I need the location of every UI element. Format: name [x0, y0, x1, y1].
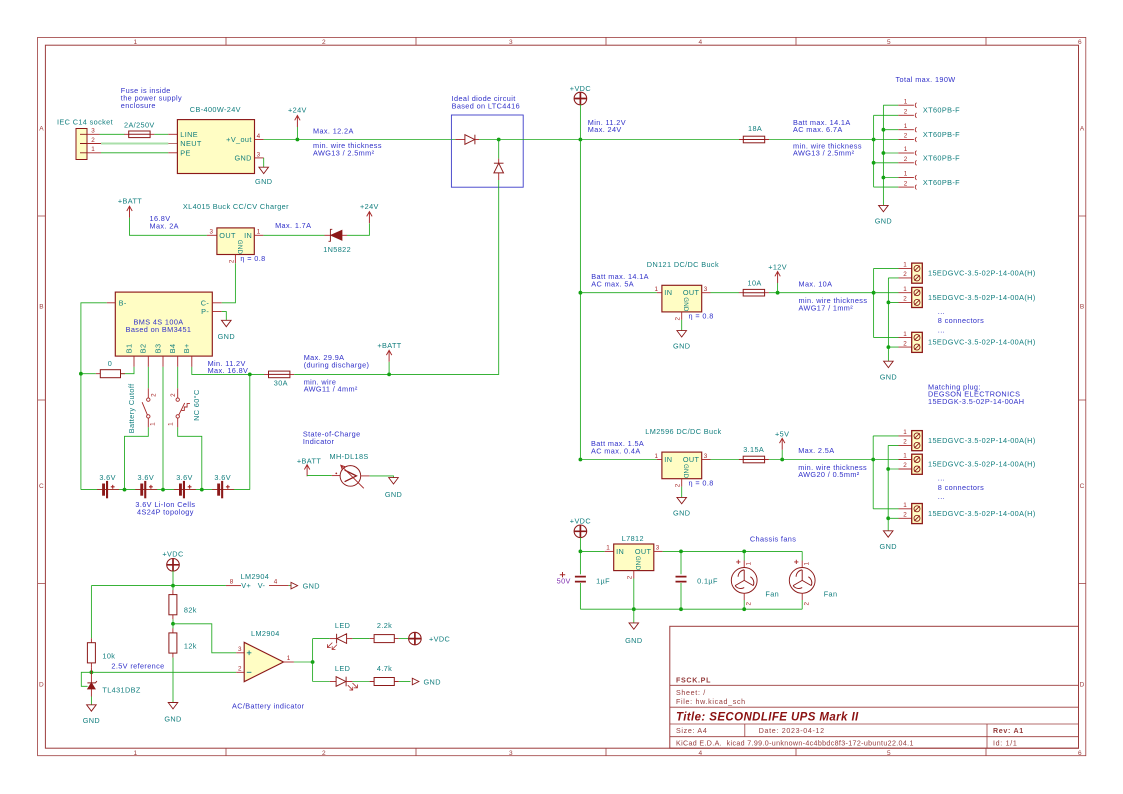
svg-text:8 connectors: 8 connectors: [938, 316, 984, 325]
wire B- to left rail: [81, 303, 107, 490]
svg-text:2A/250V: 2A/250V: [124, 120, 155, 129]
resistor R3 10k: [87, 638, 95, 667]
svg-text:2: 2: [904, 109, 908, 116]
svg-text:+V_out: +V_out: [226, 135, 252, 144]
svg-text:4: 4: [274, 579, 278, 586]
junction +BATT: [387, 373, 391, 377]
svg-text:2: 2: [91, 137, 95, 144]
svg-text:2: 2: [904, 133, 908, 140]
svg-text:1: 1: [655, 453, 659, 460]
op-amp U1B power pins LM2904: [226, 572, 291, 590]
svg-text:1: 1: [257, 229, 261, 236]
svg-text:Indicator: Indicator: [303, 437, 335, 446]
svg-text:1: 1: [903, 429, 907, 436]
svg-text:Size: A4: Size: A4: [676, 727, 707, 735]
connector J7 15EDGVC: [899, 286, 1036, 308]
svg-text:LINE: LINE: [180, 130, 198, 139]
svg-text:GND: GND: [682, 464, 689, 479]
svg-text:1: 1: [903, 502, 907, 509]
power flag +12V: [777, 283, 779, 293]
svg-text:XT60PB-F: XT60PB-F: [923, 153, 960, 162]
svg-text:2: 2: [903, 439, 907, 446]
svg-text:OUT: OUT: [219, 231, 236, 240]
svg-text:18A: 18A: [748, 124, 762, 133]
svg-text:LM2596 DC/DC Buck: LM2596 DC/DC Buck: [645, 427, 721, 436]
gnd TL431: [90, 697, 92, 705]
svg-text:10A: 10A: [748, 278, 762, 287]
svg-text:...: ...: [938, 474, 945, 483]
battery bus wire: [81, 489, 250, 491]
svg-text:OUT: OUT: [635, 547, 652, 556]
svg-text:3: 3: [210, 229, 214, 236]
svg-text:MH-DL18S: MH-DL18S: [330, 452, 369, 461]
wire shunt diode down to battery bus: [389, 180, 499, 374]
svg-text:AC/Battery indicator: AC/Battery indicator: [232, 702, 305, 711]
junction rail c3: [872, 161, 876, 165]
switch SW2 NC 60degC thermal: [168, 367, 201, 427]
wire divider to pin3: [173, 624, 236, 653]
svg-text:1: 1: [134, 750, 138, 757]
svg-text:GND: GND: [236, 240, 243, 255]
bank2 pin wires: [873, 436, 898, 518]
svg-text:GND: GND: [673, 508, 690, 517]
svg-text:FSCK.PL: FSCK.PL: [676, 677, 711, 685]
svg-text:Max. 10A: Max. 10A: [799, 279, 833, 288]
svg-text:1: 1: [606, 545, 610, 552]
svg-text:4.7k: 4.7k: [377, 664, 392, 673]
svg-text:GND: GND: [303, 582, 320, 591]
wire to LED2: [313, 681, 330, 683]
svg-text:1: 1: [903, 331, 907, 338]
svg-text:8 connectors: 8 connectors: [938, 483, 984, 492]
wire +V_out to ideal diode box: [264, 139, 456, 141]
wire fuse to +BATT junction: [294, 373, 389, 375]
gnd bank1: [884, 361, 894, 367]
svg-text:IEC C14 socket: IEC C14 socket: [57, 118, 113, 127]
regulator U6 L7812: [605, 534, 663, 579]
svg-text:Max. 24V: Max. 24V: [588, 125, 622, 134]
+VDC vertical rail: [579, 140, 581, 460]
wire 12k to gnd: [172, 658, 174, 703]
junction 2.5V ref: [90, 670, 94, 674]
connector J9 15EDGVC: [899, 429, 1036, 451]
svg-text:Chassis fans: Chassis fans: [750, 534, 796, 543]
connector J11 15EDGVC: [899, 502, 1036, 524]
svg-text:IN: IN: [664, 455, 672, 464]
connector J8 15EDGVC: [899, 331, 1036, 353]
svg-text:...: ...: [938, 325, 945, 334]
svg-text:+VDC: +VDC: [570, 84, 591, 93]
svg-text:5: 5: [887, 750, 891, 757]
svg-text:2: 2: [627, 575, 634, 579]
gnd bank2: [883, 531, 893, 537]
svg-text:AC max. 5A: AC max. 5A: [591, 280, 634, 289]
svg-text:IN: IN: [616, 547, 624, 556]
svg-text:GND: GND: [255, 177, 272, 186]
wire OUT bus: [663, 550, 803, 552]
wire OUT to fuse 3.15A: [711, 459, 740, 461]
svg-text:2: 2: [675, 317, 682, 321]
wire B+ to bus: [192, 367, 265, 375]
junction +12V flag: [776, 291, 780, 295]
svg-text:1N5822: 1N5822: [323, 245, 351, 254]
svg-text:15EDGK-3.5-02P-14-00AH: 15EDGK-3.5-02P-14-00AH: [928, 397, 1024, 406]
svg-text:2: 2: [903, 271, 907, 278]
svg-text:AC max. 0.4A: AC max. 0.4A: [591, 446, 641, 455]
svg-text:Fan: Fan: [765, 590, 779, 599]
gnd flag led2: [412, 678, 419, 685]
resistor R0 0 ohm: [120, 367, 134, 374]
svg-text:η = 0.8: η = 0.8: [689, 478, 714, 487]
gnd LM2596: [681, 487, 683, 498]
svg-text:3.6V: 3.6V: [176, 473, 193, 482]
svg-text:2: 2: [903, 462, 907, 469]
wire out to LEDs: [294, 661, 313, 663]
svg-text:1: 1: [904, 171, 908, 178]
svg-text:GND: GND: [234, 153, 251, 162]
svg-text:(during discharge): (during discharge): [304, 360, 370, 369]
junction B+ bus / right battery rail: [248, 373, 252, 377]
svg-text:C-: C-: [201, 298, 210, 307]
diode D1 1N5822: [325, 229, 348, 241]
svg-text:3: 3: [91, 128, 95, 135]
gnd P-: [222, 312, 227, 321]
svg-text:Title: SECONDLIFE UPS Mark II: Title: SECONDLIFE UPS Mark II: [676, 711, 859, 723]
svg-text:V-: V-: [258, 581, 266, 590]
svg-text:GND: GND: [83, 716, 100, 725]
svg-text:0: 0: [108, 359, 112, 368]
regulator U5 LM2596: [655, 452, 711, 487]
svg-text:+BATT: +BATT: [297, 456, 321, 465]
junction 0.1uF: [679, 550, 683, 554]
svg-text:GND: GND: [625, 636, 642, 645]
svg-text:1: 1: [904, 146, 908, 153]
wire ref loop: [81, 672, 91, 686]
svg-text:1: 1: [904, 123, 908, 130]
svg-text:15EDGVC-3.5-02P-14-00A(H): 15EDGVC-3.5-02P-14-00A(H): [928, 293, 1036, 302]
svg-text:XT60PB-F: XT60PB-F: [923, 106, 960, 115]
svg-text:IN: IN: [664, 288, 672, 297]
svg-text:η = 0.8: η = 0.8: [689, 312, 714, 321]
svg-text:2: 2: [675, 483, 682, 487]
svg-text:OUT: OUT: [683, 455, 700, 464]
junction left rail / R0: [79, 372, 83, 376]
junction +VDC rail end / 5V row: [579, 458, 583, 462]
svg-text:...: ...: [938, 492, 945, 501]
12V bank gnd rail: [887, 278, 889, 361]
svg-text:B4: B4: [168, 344, 177, 354]
svg-text:GND: GND: [218, 332, 235, 341]
svg-text:+VDC: +VDC: [162, 550, 183, 559]
wire XL4015 pin2 to C-: [222, 263, 236, 303]
wire R5 to gnd flag: [399, 681, 411, 683]
junction +24V: [296, 138, 300, 142]
svg-text:2: 2: [322, 750, 326, 757]
svg-text:GND: GND: [673, 342, 690, 351]
svg-text:OUT: OUT: [683, 288, 700, 297]
svg-text:Rev: A1: Rev: A1: [993, 727, 1024, 735]
resistor R1 82k: [172, 586, 174, 624]
svg-text:...: ...: [938, 307, 945, 316]
connector J6 15EDGVC: [899, 262, 1036, 284]
svg-text:30A: 30A: [274, 379, 288, 388]
svg-text:KiCad E.D.A. kicad 7.99.0-unk: KiCad E.D.A. kicad 7.99.0-unknown-4c4bbd…: [676, 739, 914, 747]
12V bank +rail: [873, 268, 875, 337]
led D6 (to GND): [330, 677, 358, 690]
svg-text:8: 8: [230, 579, 234, 586]
power supply PS1 CB-400W-24V: [177, 105, 263, 173]
svg-text:A: A: [39, 126, 44, 133]
connector J10 15EDGVC: [899, 453, 1036, 475]
svg-text:2: 2: [170, 393, 177, 397]
svg-text:2.2k: 2.2k: [377, 621, 392, 630]
svg-text:15EDGVC-3.5-02P-14-00A(H): 15EDGVC-3.5-02P-14-00A(H): [928, 338, 1036, 347]
wire B3 down: [162, 367, 164, 490]
svg-text:4: 4: [699, 750, 703, 757]
svg-text:P-: P-: [201, 307, 209, 316]
svg-text:3: 3: [509, 750, 513, 757]
svg-text:B2: B2: [139, 344, 148, 354]
wire to LED1: [313, 638, 330, 640]
svg-text:+BATT: +BATT: [118, 197, 142, 206]
wire fuse to bank: [769, 292, 874, 294]
svg-text:5: 5: [887, 39, 891, 46]
wire L to fuse: [100, 133, 125, 135]
svg-text:IN: IN: [244, 231, 252, 240]
svg-text:Max. 2.5A: Max. 2.5A: [798, 446, 834, 455]
svg-text:GND: GND: [634, 556, 641, 571]
svg-text:XL4015 Buck CC/CV Charger: XL4015 Buck CC/CV Charger: [183, 202, 289, 211]
svg-text:B-: B-: [119, 298, 127, 307]
connector J4 XT60PB-F: [898, 146, 960, 165]
op-amp U1A LM2904: [236, 629, 294, 682]
wire to L7812: [580, 550, 604, 552]
wire IN to diode: [263, 234, 324, 236]
wire V+ rail: [91, 586, 226, 639]
svg-text:2.5V reference: 2.5V reference: [111, 662, 164, 671]
svg-text:4S24P topology: 4S24P topology: [137, 508, 194, 517]
svg-text:15EDGVC-3.5-02P-14-00A(H): 15EDGVC-3.5-02P-14-00A(H): [928, 436, 1036, 445]
resistor R2 12k: [172, 624, 174, 629]
wire diode to junction: [479, 139, 499, 141]
svg-text:+BATT: +BATT: [377, 341, 401, 350]
BMS U3: [107, 292, 222, 367]
svg-text:AWG20 / 0.5mm²: AWG20 / 0.5mm²: [798, 470, 860, 479]
connector J1 IEC C14 socket: [57, 118, 113, 160]
svg-text:LM2904: LM2904: [241, 572, 270, 581]
svg-text:Sheet: /: Sheet: /: [676, 689, 706, 697]
svg-text:4: 4: [257, 133, 261, 140]
svg-text:10k: 10k: [102, 652, 115, 661]
svg-text:2: 2: [804, 602, 811, 606]
svg-text:3: 3: [509, 39, 513, 46]
wire PE: [101, 152, 168, 154]
svg-text:4: 4: [699, 39, 703, 46]
svg-text:15EDGVC-3.5-02P-14-00A(H): 15EDGVC-3.5-02P-14-00A(H): [928, 509, 1036, 518]
svg-text:PE: PE: [180, 148, 191, 157]
bottom rail: [580, 608, 802, 610]
svg-text:B+: B+: [182, 343, 191, 353]
svg-text:0.1µF: 0.1µF: [697, 576, 718, 585]
svg-text:B: B: [39, 304, 44, 311]
power flag +BATT (battery bus): [388, 362, 390, 375]
svg-text:1: 1: [903, 453, 907, 460]
svg-text:3.15A: 3.15A: [743, 445, 764, 454]
svg-text:GND: GND: [385, 490, 402, 499]
svg-text:1: 1: [655, 286, 659, 293]
svg-text:GND: GND: [880, 372, 897, 381]
svg-text:+5V: +5V: [775, 429, 789, 438]
svg-text:B: B: [1080, 304, 1085, 311]
switch SW1 battery cutoff: [127, 367, 157, 433]
wire node to +VDC junction: [499, 139, 874, 141]
XT60 pin wires: [874, 105, 899, 187]
svg-text:D: D: [1080, 682, 1085, 689]
svg-text:TL431DBZ: TL431DBZ: [102, 686, 140, 695]
junction pin2 rail: [632, 607, 636, 611]
svg-text:B3: B3: [153, 344, 162, 354]
capacitor C1 1uF: [579, 551, 581, 574]
gnd below PSU: [263, 158, 265, 167]
wire fuse to bank2: [769, 459, 873, 461]
wire diode to +24V: [347, 223, 369, 235]
svg-text:3: 3: [704, 453, 708, 460]
svg-text:82k: 82k: [184, 605, 197, 614]
wire rail to DN121: [580, 292, 657, 294]
capacitor C2 0.1uF: [680, 551, 682, 574]
power flag +24V (charger in): [367, 212, 372, 224]
svg-text:+12V: +12V: [768, 262, 787, 271]
svg-text:3.6V: 3.6V: [138, 473, 155, 482]
wire sw2 to junction3: [178, 427, 202, 489]
svg-text:3: 3: [238, 646, 242, 653]
gnd L7812: [633, 609, 635, 623]
svg-text:AWG13 / 2.5mm²: AWG13 / 2.5mm²: [313, 148, 375, 157]
svg-text:η = 0.8: η = 0.8: [240, 254, 265, 263]
svg-text:NC 60°C: NC 60°C: [192, 389, 201, 421]
svg-text:Fan: Fan: [824, 590, 838, 599]
svg-text:1: 1: [287, 655, 291, 662]
svg-text:2: 2: [228, 259, 235, 263]
diode D3 (shunt, vertical): [494, 140, 504, 181]
wire R4 to +VDC: [399, 638, 409, 640]
svg-text:GND: GND: [682, 297, 689, 312]
svg-text:LED: LED: [335, 621, 350, 630]
svg-text:2: 2: [746, 602, 753, 606]
svg-text:2: 2: [904, 180, 908, 187]
XT60 gnd rail: [882, 105, 884, 205]
svg-text:3: 3: [257, 151, 261, 158]
svg-text:NEUT: NEUT: [180, 139, 202, 148]
svg-text:LM2904: LM2904: [251, 629, 280, 638]
wire ref to pin2: [91, 671, 236, 673]
svg-text:Battery Cutoff: Battery Cutoff: [127, 383, 136, 433]
svg-text:12k: 12k: [184, 641, 197, 650]
svg-text:GND: GND: [424, 678, 441, 687]
svg-text:Max. 16.8V: Max. 16.8V: [208, 366, 249, 375]
svg-text:Max. 12.2A: Max. 12.2A: [313, 126, 354, 135]
svg-text:+VDC: +VDC: [570, 517, 591, 526]
wire rail to LM2596: [580, 459, 657, 461]
wire meter to gnd: [370, 476, 394, 478]
svg-text:15EDGVC-3.5-02P-14-00A(H): 15EDGVC-3.5-02P-14-00A(H): [928, 268, 1036, 277]
svg-text:3.6V: 3.6V: [99, 473, 116, 482]
gnd DN121: [681, 320, 683, 331]
junction +VDC rail / 12V row: [579, 291, 583, 295]
svg-text:1: 1: [91, 146, 95, 153]
title block: [670, 626, 1079, 748]
svg-text:2: 2: [322, 39, 326, 46]
wire L7812 pin2 to rail: [633, 579, 635, 610]
led D5 (on +VDC side): [327, 634, 352, 650]
svg-text:DN121 DC/DC Buck: DN121 DC/DC Buck: [647, 260, 719, 269]
svg-text:Date: 2023-04-12: Date: 2023-04-12: [759, 727, 825, 735]
power flag +24V: [296, 127, 298, 140]
svg-text:XT60PB-F: XT60PB-F: [923, 178, 960, 187]
svg-text:D: D: [39, 682, 44, 689]
svg-text:1: 1: [804, 562, 811, 566]
junction L7812 in: [579, 550, 583, 554]
svg-text:File: hw.kicad_sch: File: hw.kicad_sch: [676, 698, 746, 706]
svg-text:1: 1: [903, 262, 907, 269]
svg-text:C: C: [1080, 483, 1085, 490]
svg-text:GND: GND: [875, 216, 892, 225]
svg-text:+VDC: +VDC: [429, 635, 450, 644]
svg-text:LED: LED: [335, 664, 350, 673]
svg-text:Based on BM3451: Based on BM3451: [126, 325, 192, 334]
junction +5V flag: [780, 458, 784, 462]
svg-text:V+: V+: [241, 581, 251, 590]
svg-text:1: 1: [134, 39, 138, 46]
svg-text:6: 6: [1078, 39, 1082, 46]
connector J3 XT60PB-F: [898, 123, 960, 142]
svg-text:Max. 2A: Max. 2A: [150, 221, 179, 230]
svg-text:50V: 50V: [557, 576, 571, 585]
5V bank +rail: [872, 436, 874, 509]
regulator U2 XL4015: [207, 228, 264, 263]
power flag +5V: [781, 450, 783, 460]
fan M2: [731, 550, 779, 612]
svg-text:AC max. 6.7A: AC max. 6.7A: [793, 125, 843, 134]
svg-text:B1: B1: [124, 344, 133, 354]
svg-text:1: 1: [168, 422, 175, 426]
connector J5 XT60PB-F: [898, 171, 960, 190]
svg-text:15EDGVC-3.5-02P-14-00A(H): 15EDGVC-3.5-02P-14-00A(H): [928, 460, 1036, 469]
power symbol +VDC (led): [409, 632, 422, 645]
wire LED1 to R4: [352, 638, 369, 640]
junction V+ node: [171, 584, 175, 588]
gnd XT60 bank: [879, 205, 889, 211]
svg-text:Total max. 190W: Total max. 190W: [896, 75, 956, 84]
junction +VDC rail top: [579, 138, 583, 142]
svg-text:2: 2: [903, 512, 907, 519]
svg-text:2: 2: [238, 665, 242, 672]
ideal diode enclosure box: [451, 115, 523, 187]
svg-text:3: 3: [656, 545, 660, 552]
svg-text:Max. 1.7A: Max. 1.7A: [275, 221, 311, 230]
wire LED2 to R5: [352, 681, 369, 683]
svg-text:2: 2: [903, 296, 907, 303]
junctions battery bus: [123, 488, 127, 492]
wire sw1 to junction1: [125, 427, 149, 489]
svg-text:+24V: +24V: [288, 105, 307, 114]
svg-text:1: 1: [746, 562, 753, 566]
note: fuse location: [121, 86, 182, 110]
svg-text:6: 6: [1078, 750, 1082, 757]
diode D2 (series, ideal): [455, 135, 479, 145]
svg-text:XT60PB-F: XT60PB-F: [923, 130, 960, 139]
svg-text:2: 2: [904, 156, 908, 163]
